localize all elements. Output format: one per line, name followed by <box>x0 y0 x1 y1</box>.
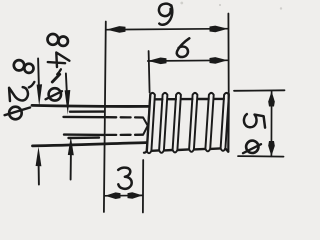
diameter 5 top extension line <box>234 89 285 92</box>
bore drill point cone <box>143 118 148 135</box>
worm thread crest band 6 <box>221 93 229 151</box>
arrowhead dia 5 down <box>268 141 275 156</box>
text comma (dia 1.48) <box>57 69 61 74</box>
arrowhead dim 6 right <box>210 57 228 64</box>
counterbore line top <box>70 110 104 112</box>
arrowhead dim 9 left <box>106 26 125 33</box>
text diameter symbol (dia 1.48) <box>49 88 61 100</box>
text digit 3 (dim 3) <box>118 168 132 189</box>
text diameter symbol (dia 2.8) <box>9 107 22 120</box>
dimension line 6 <box>148 59 228 62</box>
arrowhead dia 1.48 bottom <box>68 136 74 155</box>
worm thread crest band 1 <box>147 93 155 153</box>
worm thread crest band 2 <box>159 93 167 153</box>
text digit 5 (dia 5, rotated) <box>244 114 265 128</box>
bore line bottom solid segment <box>64 133 104 136</box>
arrowhead dim 3 left <box>105 192 121 199</box>
extension line right (shared by dim 9 and dim 6) <box>227 14 229 93</box>
arrowhead dim 3 right <box>128 192 143 199</box>
bore line top solid segment <box>64 116 105 119</box>
arrowhead dia 1.48 top <box>65 90 71 115</box>
leader line diameter 2.8 top <box>37 59 40 88</box>
paper speck near 9 <box>180 2 183 5</box>
arrowhead dim 9 right <box>210 26 228 33</box>
dimension line 3 <box>105 194 143 196</box>
dimension line 9 <box>107 29 228 30</box>
worm thread crest band 3 <box>173 93 181 153</box>
worm thread root line top <box>155 98 224 101</box>
arrowhead dia 2.8 top <box>37 84 43 106</box>
extension line 3 right <box>142 160 144 213</box>
text diameter symbol (dia 5) <box>246 141 258 153</box>
paper speck top right <box>219 4 221 6</box>
text digit 8 (dia 1.48) <box>48 34 59 45</box>
arrowhead dia 2.8 bottom <box>36 147 42 167</box>
worm thread crest band 4 <box>189 93 197 152</box>
arrowhead dim 6 left <box>148 58 167 65</box>
text digit 9 (dim 9) <box>159 4 171 16</box>
leader line diameter 1.48 top <box>65 74 68 93</box>
diameter 5 dimension line <box>270 91 272 156</box>
worm left face <box>144 94 151 153</box>
text comma (dia 2.8) <box>29 82 34 87</box>
extension line 6 left <box>149 51 150 93</box>
text digit 8 (dia 2.8) <box>14 60 24 70</box>
shaft bottom edge (diameter 2.8 cylinder) <box>33 143 147 146</box>
text digit 1 (dia 1.48) <box>52 74 59 82</box>
text digit 4 (dia 1.48, rotated) <box>48 53 70 68</box>
worm thread crest band 5 <box>205 93 213 151</box>
counterbore line bottom <box>69 136 100 139</box>
arrowhead dia 5 up <box>268 91 275 106</box>
leader line diameter 1.48 bottom <box>70 154 72 180</box>
bore line top dashed segment <box>106 116 143 119</box>
worm thread root line bottom <box>152 148 229 151</box>
text digit 2 (dia 2.8, rotated) <box>9 87 28 101</box>
diameter 5 bottom extension line <box>238 155 284 158</box>
extension line left (shared by dim 9 and dim 3) <box>104 22 106 213</box>
text digit 6 (dim 6) <box>177 38 190 57</box>
leader line diameter 2.8 bottom <box>38 165 40 185</box>
shaft top edge (diameter 2.8 cylinder) <box>32 105 148 106</box>
paper speck far right <box>280 7 282 9</box>
bore line bottom dashed segment <box>106 134 143 136</box>
worm right face <box>227 93 230 151</box>
